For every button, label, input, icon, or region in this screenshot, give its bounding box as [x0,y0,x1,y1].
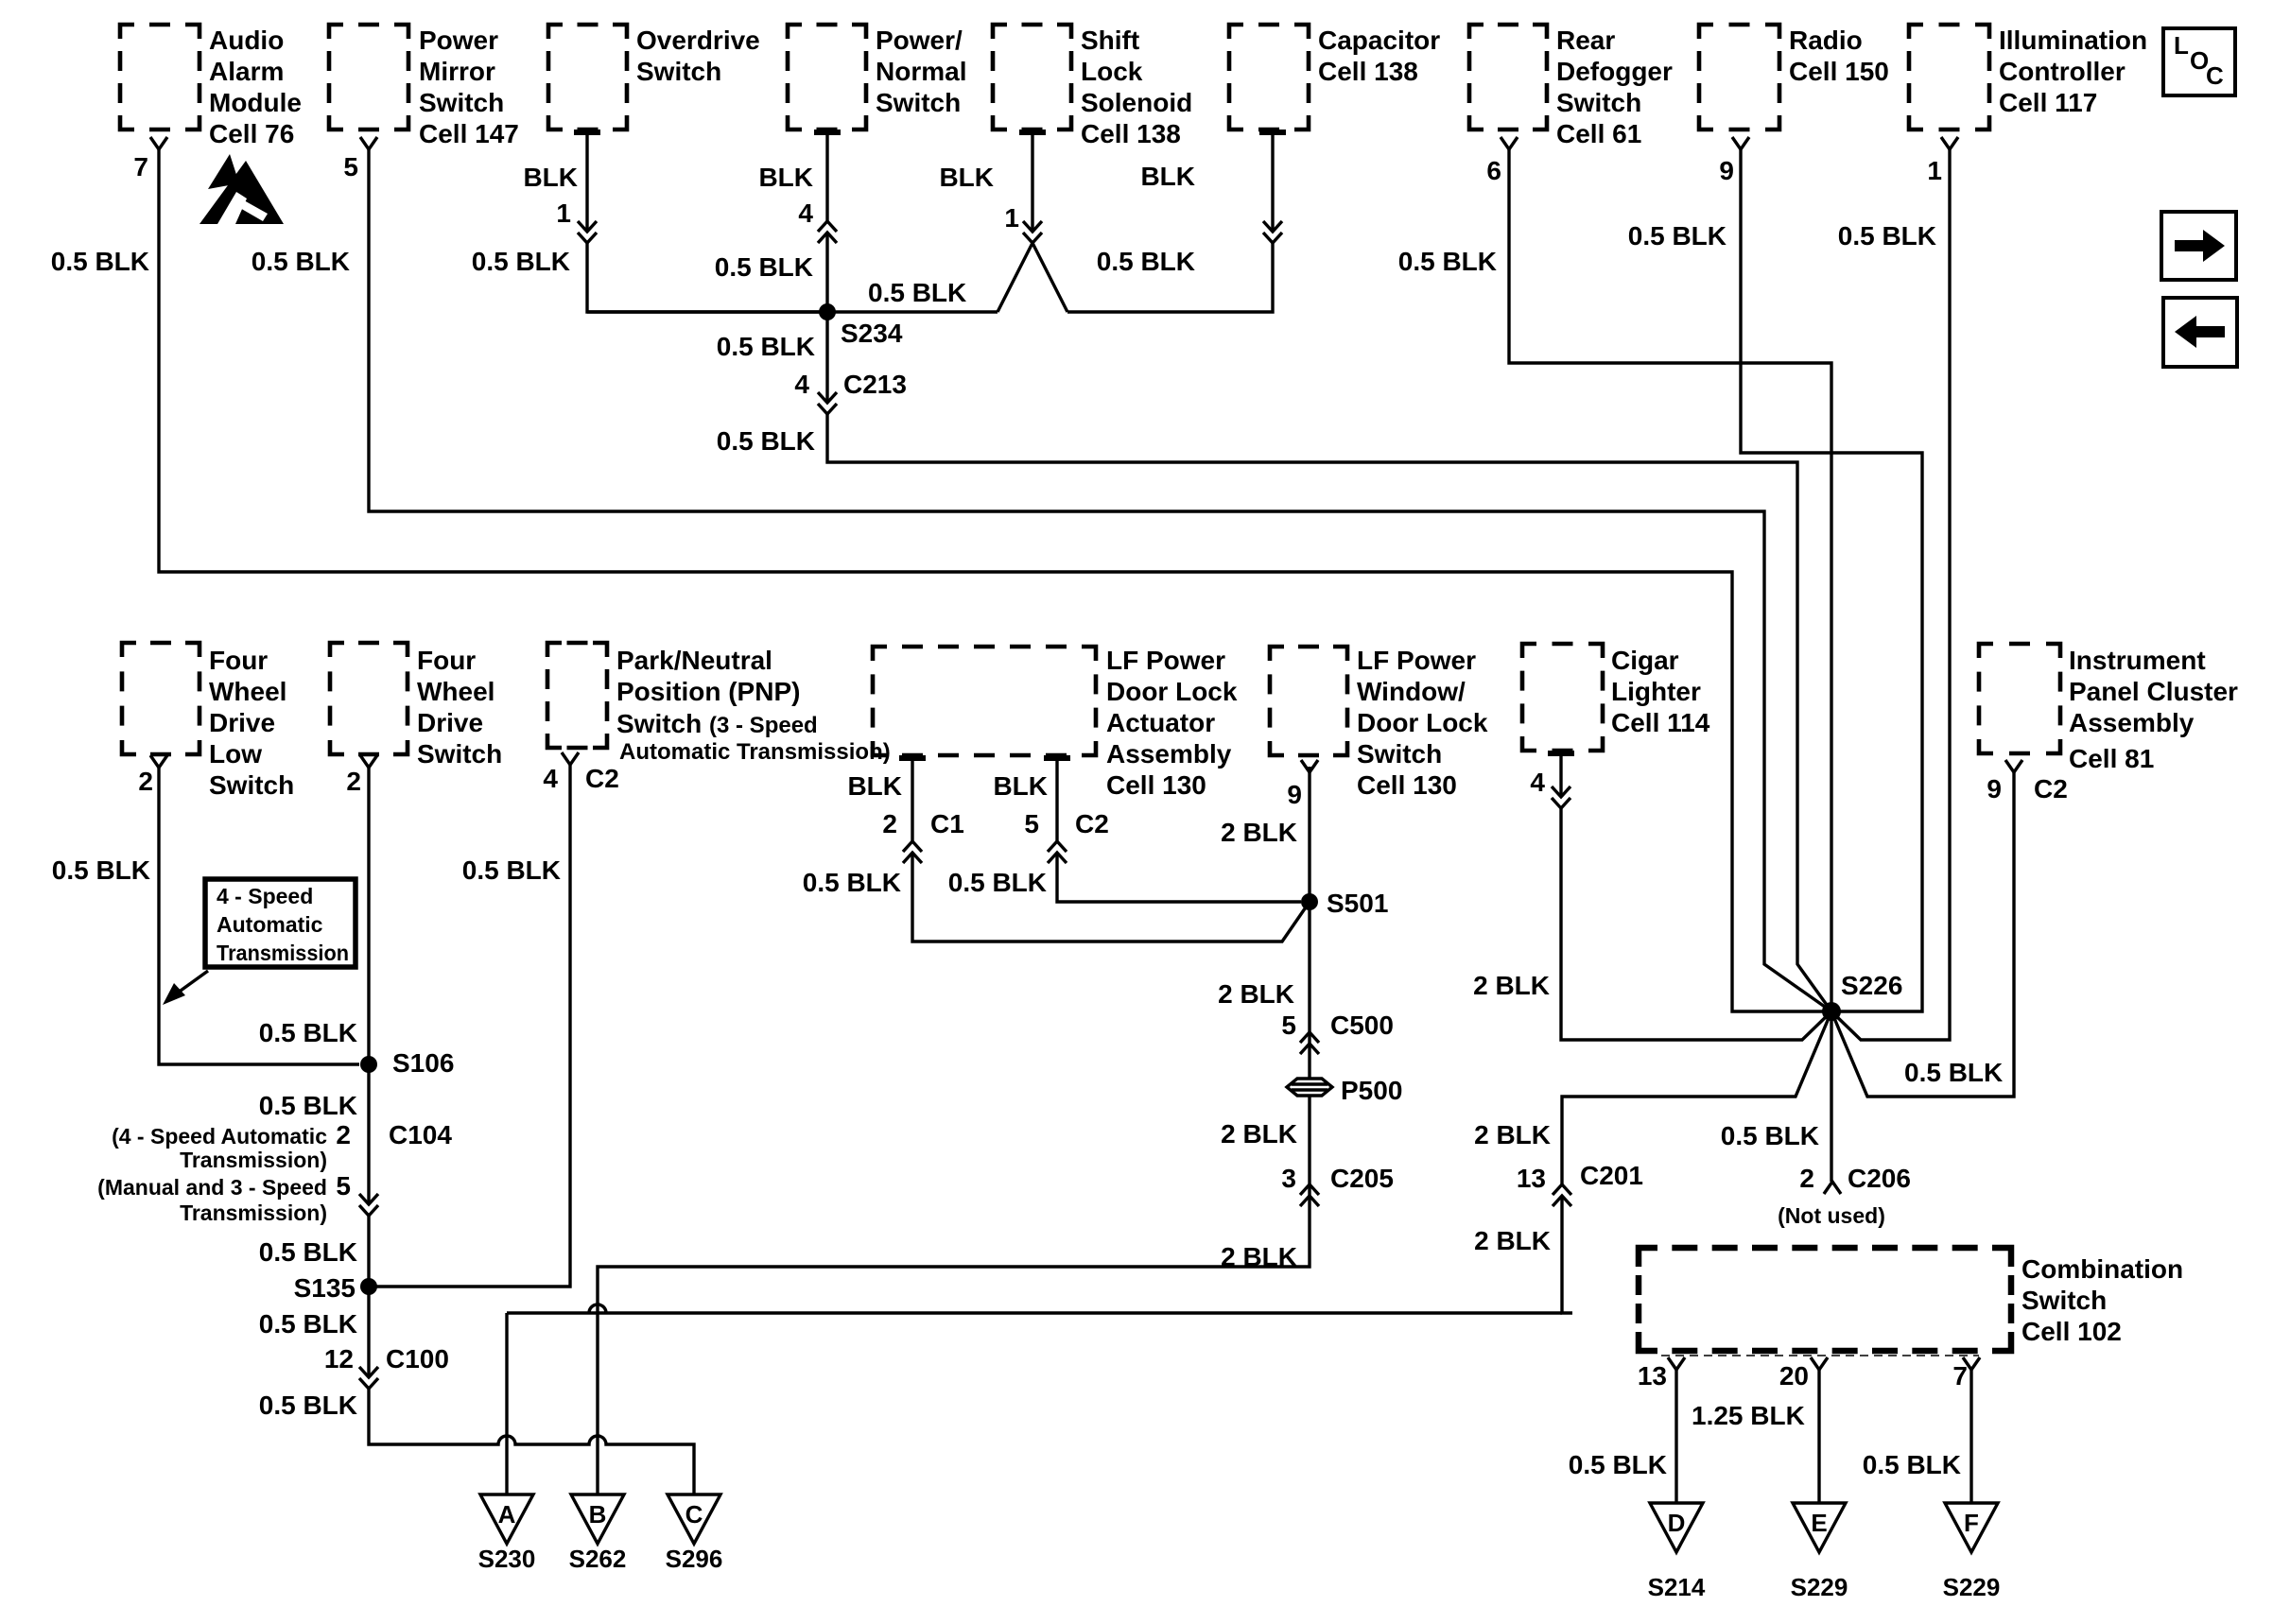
wire C500 to P500 [1308,1044,1310,1079]
pin 1 connector (shift lock solenoid) [1004,203,1042,243]
svg-text:Switch: Switch [419,88,504,117]
svg-text:2 BLK: 2 BLK [1218,979,1294,1009]
connector C206 pin 2 (not used) [1778,1164,1911,1228]
svg-text:Capacitor: Capacitor [1318,26,1440,55]
wire PNP switch to S135 [369,765,570,1287]
svg-text:Low: Low [209,739,262,769]
svg-text:S229: S229 [1943,1573,2001,1601]
note (4-Speed Automatic Transmission) at C104 pin 2 [112,1124,327,1172]
connector C500 pin 5 [1281,1011,1394,1054]
svg-text:2: 2 [336,1120,351,1149]
splice S234 [819,303,903,348]
pin 2 connector fork (four wheel drive switch) [346,755,377,796]
svg-text:0.5 BLK: 0.5 BLK [715,252,813,282]
svg-text:Switch: Switch [876,88,961,117]
overdrive switch wire stub with terminal bar [574,132,600,232]
svg-text:1: 1 [1004,203,1019,233]
svg-text:5: 5 [343,152,358,181]
svg-text:S501: S501 [1327,889,1388,918]
svg-text:Cell 117: Cell 117 [1999,88,2097,117]
svg-text:2: 2 [882,809,897,838]
wire P500 to C205 [1308,1096,1310,1196]
svg-text:F: F [1964,1509,1979,1537]
svg-text:Automatic: Automatic [217,912,323,937]
splice S135 [294,1273,377,1303]
svg-text:Drive: Drive [209,708,275,737]
svg-text:2: 2 [346,767,361,796]
radio box (dashed) [1699,25,1889,130]
triangle A ground reference [478,1494,536,1573]
svg-text:Drive: Drive [417,708,483,737]
svg-text:Park/Neutral: Park/Neutral [616,646,772,675]
svg-text:0.5 BLK: 0.5 BLK [259,1018,357,1047]
pin 9 connector fork (radio) [1719,137,1749,185]
svg-text:2 BLK: 2 BLK [1221,818,1297,847]
door lock actuator wire stub C2 with terminal bar [1044,758,1070,841]
svg-text:LF Power: LF Power [1357,646,1476,675]
svg-text:(Not used): (Not used) [1778,1203,1885,1228]
svg-text:Cell 76: Cell 76 [209,119,294,148]
svg-text:BLK: BLK [523,163,578,192]
svg-text:7: 7 [133,152,148,181]
pin 4 C2 connector fork (PNP switch) [543,752,618,793]
capacitor inline connector [1263,221,1282,243]
svg-text:Window/: Window/ [1357,677,1466,706]
svg-text:Cell 138: Cell 138 [1081,119,1181,148]
svg-text:B: B [589,1500,607,1529]
svg-text:Switch (3 - Speed: Switch (3 - Speed [616,709,818,738]
svg-text:S234: S234 [841,319,903,348]
svg-text:Panel Cluster: Panel Cluster [2069,677,2238,706]
pin 4 connector (power/normal switch) [798,199,837,243]
svg-text:9: 9 [1719,156,1734,185]
svg-text:Cell 130: Cell 130 [1357,770,1457,800]
svg-text:Mirror: Mirror [419,57,495,86]
svg-text:0.5 BLK: 0.5 BLK [252,247,350,276]
rear defogger switch box (dashed) [1469,25,1673,148]
four wheel drive switch box (dashed) [330,643,502,769]
LF power window/door lock switch box (dashed) [1270,646,1488,800]
wire overdrive to S234 bus [587,243,819,312]
grommet P500 [1287,1076,1402,1105]
svg-text:Cell 130: Cell 130 [1106,770,1206,800]
svg-text:12: 12 [324,1344,354,1373]
triangle E ground reference [1791,1503,1848,1601]
wire combination switch pin 13 to D [1674,1370,1677,1503]
svg-text:Rear: Rear [1556,26,1615,55]
wire LF power window switch to S501 [1308,767,1310,902]
power/normal switch wire stub with terminal bar [814,132,841,221]
svg-text:13: 13 [1638,1361,1667,1391]
arrow legend box right [2161,212,2236,280]
wire S234 ground bus [587,310,998,313]
svg-text:0.5 BLK: 0.5 BLK [1398,247,1497,276]
wire S226 down to C206 [1830,1011,1832,1182]
pin 9 C2 connector fork (instrument panel cluster) [1987,760,2067,803]
svg-text:4: 4 [798,199,813,228]
shift lock solenoid box (dashed) [993,25,1192,148]
svg-text:0.5 BLK: 0.5 BLK [51,247,149,276]
svg-text:(4 - Speed Automatic: (4 - Speed Automatic [112,1124,327,1149]
wire door lock actuator C1 to S501 [912,853,1310,942]
svg-text:Lighter: Lighter [1611,677,1701,706]
connector C201 pin 13 [1517,1161,1643,1206]
wire S226 branch to C201 [1562,1011,1831,1184]
combination switch box (dashed) [1639,1248,2183,1351]
svg-text:0.5 BLK: 0.5 BLK [1721,1121,1819,1150]
svg-text:0.5 BLK: 0.5 BLK [259,1237,357,1267]
splice S226 [1822,971,1902,1021]
svg-text:5: 5 [336,1171,351,1201]
audio alarm module box (dashed) [120,25,302,148]
connector C1 pin 2 (door lock actuator) [882,809,963,863]
svg-text:Cell 81: Cell 81 [2069,744,2154,773]
svg-text:Switch: Switch [2021,1286,2107,1315]
svg-text:Switch: Switch [1357,739,1442,769]
LOC legend box [2163,28,2235,95]
svg-text:20: 20 [1779,1361,1809,1391]
svg-text:1: 1 [1927,156,1942,185]
svg-text:S106: S106 [392,1048,454,1078]
wire cigar lighter to S226 [1561,808,1831,1040]
svg-text:S262: S262 [569,1545,627,1573]
svg-text:0.5 BLK: 0.5 BLK [462,855,561,885]
svg-text:2: 2 [138,767,153,796]
arrow legend box left [2163,298,2237,367]
svg-text:C213: C213 [843,370,907,399]
pin 7 connector fork (combination switch) [1952,1357,1980,1391]
connector C2 pin 5 (door lock actuator) [1024,809,1108,863]
svg-text:C2: C2 [1075,809,1109,838]
svg-text:Overdrive: Overdrive [636,26,760,55]
svg-text:9: 9 [1287,780,1302,809]
pin 1 connector fork (illumination controller) [1927,137,1958,185]
svg-text:Cell 147: Cell 147 [419,119,519,148]
svg-text:0.5 BLK: 0.5 BLK [948,868,1047,897]
wire 4WD low switch to S106 [159,768,359,1064]
svg-text:BLK: BLK [758,163,813,192]
svg-text:0.5 BLK: 0.5 BLK [803,868,901,897]
svg-text:Combination: Combination [2021,1254,2183,1284]
svg-text:1: 1 [556,199,571,228]
pin 7 connector fork (audio alarm module) [133,137,167,181]
svg-text:0.5 BLK: 0.5 BLK [717,332,815,361]
pin 13 connector fork (combination switch) [1638,1357,1685,1391]
svg-text:L: L [2174,31,2189,60]
svg-text:9: 9 [1987,774,2002,803]
svg-text:Cell 150: Cell 150 [1789,57,1889,86]
note arrow to 4WD low wire [163,971,208,1005]
svg-text:C201: C201 [1580,1161,1643,1190]
svg-text:13: 13 [1517,1164,1546,1193]
svg-text:Automatic Transmission): Automatic Transmission) [619,739,891,765]
svg-text:Cell 138: Cell 138 [1318,57,1418,86]
pin 6 connector fork (rear defogger switch) [1486,137,1518,185]
pin 5 connector fork (power mirror switch) [343,137,377,181]
svg-text:0.5 BLK: 0.5 BLK [1628,221,1726,251]
svg-text:4: 4 [1530,768,1545,797]
svg-text:Door Lock: Door Lock [1106,677,1238,706]
power/normal switch box (dashed) [788,25,966,130]
svg-text:0.5 BLK: 0.5 BLK [717,426,815,456]
wire C213 to S226 [827,414,1831,1011]
wire joint splice at shift lock pin (two wires into pin 1) [998,243,1067,312]
4-speed automatic transmission note box [205,879,356,967]
svg-text:Cell 102: Cell 102 [2021,1317,2122,1346]
instrument panel cluster box (dashed) [1979,644,2238,773]
illumination controller box (dashed) [1909,25,2147,130]
svg-text:5: 5 [1024,809,1039,838]
svg-text:S226: S226 [1841,971,1902,1000]
svg-text:BLK: BLK [993,771,1048,801]
triangle F ground reference [1943,1503,2001,1601]
door lock actuator wire stub C1 with terminal bar [899,758,926,841]
wire C201 run to A triangle with hop [507,1304,1562,1313]
pin 2 connector fork (four wheel drive low switch) [138,755,167,796]
svg-text:Assembly: Assembly [1106,739,1232,769]
svg-text:Cigar: Cigar [1611,646,1679,675]
svg-text:4: 4 [794,370,809,399]
svg-text:C205: C205 [1330,1164,1394,1193]
svg-text:Wheel: Wheel [209,677,286,706]
svg-text:C104: C104 [389,1120,452,1149]
svg-text:Power: Power [419,26,498,55]
wire S135 to C100 [367,1287,370,1377]
note (Manual and 3-Speed Transmission) at C104 pin 5 [97,1175,327,1225]
svg-text:0.5 BLK: 0.5 BLK [259,1391,357,1420]
svg-text:Actuator: Actuator [1106,708,1215,737]
svg-text:2 BLK: 2 BLK [1474,1226,1551,1255]
svg-text:C1: C1 [930,809,964,838]
shift lock solenoid wire stub with terminal bar [1019,132,1046,232]
wire S234 down to C213 [825,312,828,403]
cigar lighter box (dashed) [1522,644,1710,751]
svg-text:Audio: Audio [209,26,284,55]
svg-text:Transmission): Transmission) [180,1148,327,1172]
wire combination switch pin 20 to E [1817,1370,1820,1503]
pin 20 connector fork (combination switch) [1779,1357,1828,1391]
svg-text:Transmission: Transmission [217,941,349,965]
svg-text:Switch: Switch [636,57,721,86]
svg-text:2 BLK: 2 BLK [1474,1120,1551,1149]
svg-text:Position (PNP): Position (PNP) [616,677,800,706]
triangle B ground reference [569,1494,627,1573]
svg-text:Illumination: Illumination [1999,26,2147,55]
svg-text:2 BLK: 2 BLK [1473,971,1550,1000]
wire rear defogger pin6 to S226 [1509,149,1831,1011]
svg-text:0.5 BLK: 0.5 BLK [1904,1058,2003,1087]
svg-text:0.5 BLK: 0.5 BLK [52,855,150,885]
svg-text:(Manual and 3 - Speed: (Manual and 3 - Speed [97,1175,327,1200]
svg-text:Controller: Controller [1999,57,2126,86]
svg-text:C: C [685,1500,703,1529]
svg-text:0.5 BLK: 0.5 BLK [868,278,966,307]
svg-text:C206: C206 [1848,1164,1911,1193]
connector C104 pins 2 and 5 [336,1120,452,1216]
wire C100 to C triangle run with hops [369,1389,694,1494]
svg-text:Transmission): Transmission) [180,1201,327,1225]
svg-text:3: 3 [1281,1164,1296,1193]
overdrive switch box (dashed) [548,25,760,130]
svg-text:LF Power: LF Power [1106,646,1225,675]
svg-text:Radio: Radio [1789,26,1863,55]
svg-text:Normal: Normal [876,57,966,86]
svg-text:BLK: BLK [847,771,902,801]
park/neutral position switch box (dashed) [547,643,891,765]
svg-text:2: 2 [1799,1164,1814,1193]
svg-text:Cell 61: Cell 61 [1556,119,1641,148]
svg-text:BLK: BLK [939,163,994,192]
svg-text:0.5 BLK: 0.5 BLK [259,1091,357,1120]
svg-text:Solenoid: Solenoid [1081,88,1192,117]
svg-text:Lock: Lock [1081,57,1143,86]
power mirror switch box (dashed) [329,25,519,148]
svg-text:0.5 BLK: 0.5 BLK [1569,1450,1667,1479]
pin 4 connector (cigar lighter) [1530,768,1570,808]
triangle D ground reference [1648,1503,1706,1601]
svg-text:0.5 BLK: 0.5 BLK [472,247,570,276]
wire door lock actuator C2 to S501 [1057,853,1301,902]
svg-text:Defogger: Defogger [1556,57,1673,86]
capacitor box (dashed) [1229,25,1440,130]
svg-text:C2: C2 [2034,774,2068,803]
wire capacitor to shift lock pin joint [1067,243,1273,312]
svg-text:C500: C500 [1330,1011,1394,1040]
svg-text:5: 5 [1281,1011,1296,1040]
LF power door lock actuator assembly box (dashed) [873,646,1238,800]
svg-text:0.5 BLK: 0.5 BLK [1863,1450,1961,1479]
svg-text:A: A [498,1500,516,1529]
wire C201 down to A-triangle run [1562,1196,1572,1313]
wire power/normal to S234 [825,233,828,312]
wire illumination controller pin1 to S226 [1831,149,1950,1040]
svg-text:0.5 BLK: 0.5 BLK [1838,221,1936,251]
svg-text:C100: C100 [386,1344,449,1373]
ESD sensitive device symbol [200,154,284,224]
svg-text:Power/: Power/ [876,26,963,55]
wire S501 to C500 [1308,902,1310,1044]
svg-text:C2: C2 [585,764,619,793]
pin 1 connector (overdrive switch) [556,199,597,243]
svg-text:C: C [2206,61,2224,90]
svg-text:6: 6 [1486,156,1501,185]
pin 9 connector fork (LF power window switch) [1287,760,1318,809]
svg-text:Wheel: Wheel [417,677,495,706]
svg-text:1.25 BLK: 1.25 BLK [1692,1401,1805,1430]
wire radio pin9 to S226 [1741,149,1922,1011]
splice S501 [1301,889,1388,918]
four wheel drive low switch box (dashed) [122,643,294,800]
svg-text:S214: S214 [1648,1573,1706,1601]
svg-text:4 - Speed: 4 - Speed [217,884,313,908]
connector C100 pin 12 [324,1344,449,1389]
wire 4WD switch down to S106 [367,768,370,1064]
svg-text:D: D [1668,1509,1686,1537]
wire S106 to C104 [367,1064,370,1204]
wire combination switch pin 7 to F [1969,1370,1972,1503]
svg-text:S135: S135 [294,1273,356,1303]
svg-text:P500: P500 [1341,1076,1402,1105]
svg-text:Module: Module [209,88,302,117]
svg-text:Switch: Switch [209,770,294,800]
svg-text:Cell 114: Cell 114 [1611,708,1710,737]
svg-text:Four: Four [417,646,476,675]
svg-text:4: 4 [543,764,558,793]
svg-text:Switch: Switch [417,739,502,769]
wire A triangle drop [505,1313,508,1494]
cigar lighter wire stub with terminal bar [1548,753,1574,797]
svg-text:BLK: BLK [1140,162,1195,191]
svg-text:S230: S230 [478,1545,536,1573]
svg-text:7: 7 [1952,1361,1968,1391]
wire C205 to B triangle run [598,1196,1310,1494]
svg-text:S296: S296 [666,1545,723,1573]
svg-text:Four: Four [209,646,268,675]
svg-text:Alarm: Alarm [209,57,284,86]
wire power mirror pin5 to S226 [369,149,1831,1011]
splice S106 [360,1048,454,1078]
svg-text:E: E [1811,1509,1827,1537]
wire audio alarm pin7 to S226 [159,149,1831,1011]
svg-text:Assembly: Assembly [2069,708,2195,737]
triangle C ground reference [666,1494,723,1573]
svg-text:Shift: Shift [1081,26,1139,55]
svg-text:0.5 BLK: 0.5 BLK [1097,247,1195,276]
connector C205 pin 3 [1281,1164,1394,1206]
svg-text:0.5 BLK: 0.5 BLK [259,1309,357,1339]
connector C213 pin 4 [794,370,907,414]
svg-text:S229: S229 [1791,1573,1848,1601]
wire instrument panel cluster to S226 [1831,772,2014,1097]
wire C104 to S135 [367,1216,370,1287]
svg-text:2 BLK: 2 BLK [1221,1119,1297,1149]
svg-text:Switch: Switch [1556,88,1641,117]
svg-text:Door Lock: Door Lock [1357,708,1488,737]
svg-text:Instrument: Instrument [2069,646,2206,675]
capacitor wire stub with terminal bar [1259,132,1286,232]
combination switch connector face line [1661,1355,1979,1356]
